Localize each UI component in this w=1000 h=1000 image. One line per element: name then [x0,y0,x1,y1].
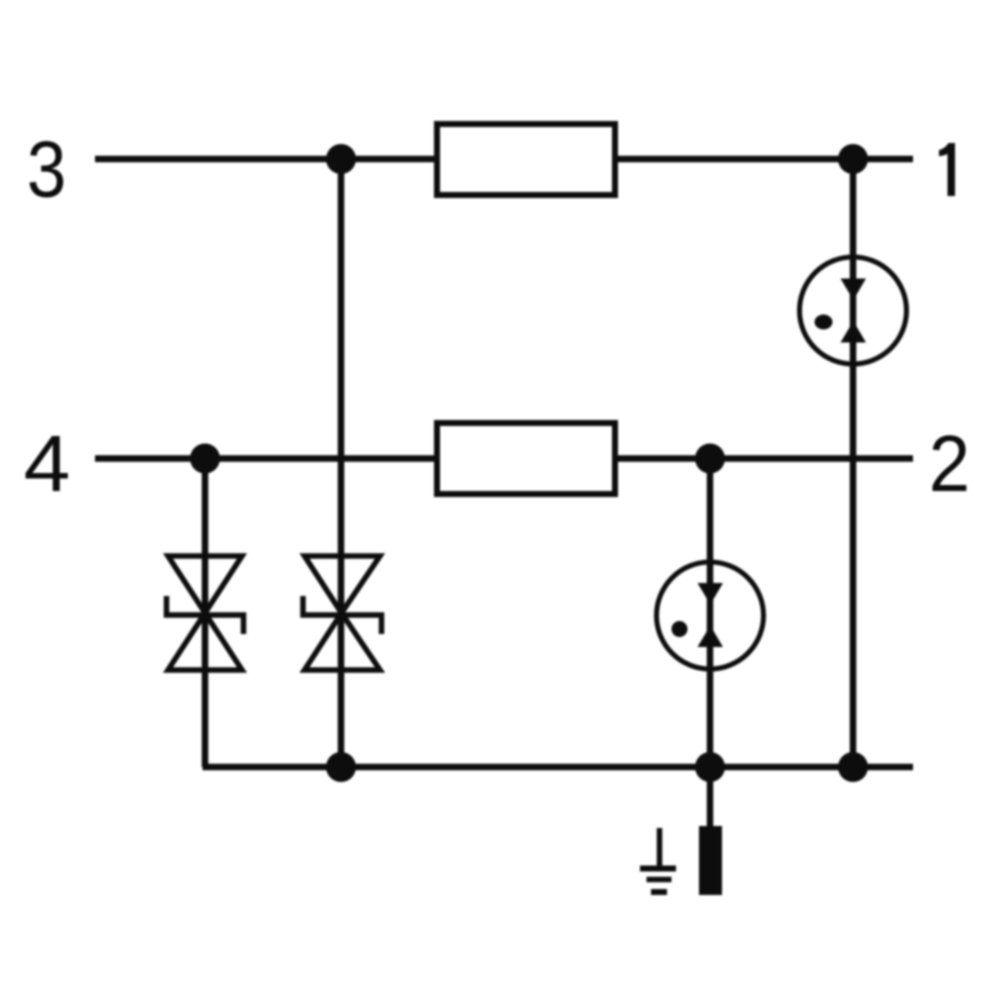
svg-text:3: 3 [27,125,67,215]
svg-text:4: 4 [24,420,71,509]
svg-text:2: 2 [929,420,970,509]
